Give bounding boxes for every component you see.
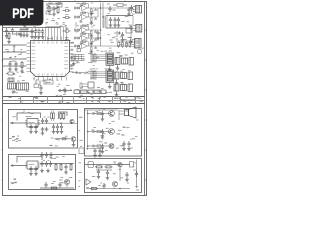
transistor Q6 <box>64 179 69 187</box>
wire top rail <box>84 109 118 111</box>
output caps <box>122 141 131 151</box>
trimmer RV3 <box>63 28 71 32</box>
bus drop wires <box>104 16 107 29</box>
wire harness into U1 top <box>46 27 67 41</box>
extra texture <box>12 21 126 82</box>
dip switch SW2 <box>17 83 29 90</box>
capacitor C4 <box>5 28 9 38</box>
driver stage Q5 <box>88 142 114 154</box>
inter-row wires <box>75 22 77 28</box>
labels bottom-left box <box>11 157 73 184</box>
psu section box outline <box>9 155 76 190</box>
transistor Q8 <box>112 181 117 186</box>
revision table strip <box>3 97 145 104</box>
resistor R3 <box>113 4 127 7</box>
wire net mid <box>72 71 88 74</box>
IC U1 (main processor) <box>27 37 74 81</box>
op-amp U3 stage <box>74 11 98 25</box>
transformer T1 with connector <box>91 51 114 72</box>
speaker LS1 <box>119 107 136 118</box>
electrolytic C18 <box>53 111 55 122</box>
connector group J8 <box>114 82 133 96</box>
crystal X1 <box>6 72 15 75</box>
ground row bottom box <box>29 166 50 176</box>
wire main rail <box>27 122 77 124</box>
IC side labels <box>7 50 23 58</box>
wires to connectors <box>98 8 133 46</box>
capacitor C13 <box>107 4 112 12</box>
wire speaker feed <box>118 110 120 120</box>
audio section box outline <box>9 110 78 149</box>
connector group J6 <box>115 56 134 71</box>
sheet border frame ticks <box>2 0 147 196</box>
right edge wire <box>133 160 138 189</box>
transformer T2 with connector <box>91 69 114 89</box>
op-amp U2 stage <box>74 2 98 16</box>
driver stage Q4 <box>88 128 115 140</box>
labels cluster A <box>46 3 60 15</box>
coupling caps <box>40 161 52 168</box>
transistor Q1 <box>70 119 74 123</box>
IC U8 <box>25 119 40 128</box>
connector J2 <box>130 5 142 14</box>
decoupling caps row <box>30 29 44 39</box>
wire loop above IC <box>17 113 41 121</box>
connector group J7 <box>114 70 133 85</box>
feedback loop resistors <box>59 112 68 120</box>
labels below switches <box>12 91 29 93</box>
trimmer RV2 <box>63 15 71 19</box>
dip switch SW1 <box>8 83 16 89</box>
RC cluster A <box>46 2 62 16</box>
bottom rail <box>40 182 74 189</box>
mid network <box>96 169 112 180</box>
svg-text:PDF: PDF <box>12 6 34 21</box>
labels right box <box>101 111 139 151</box>
capacitor C1 <box>19 28 23 38</box>
amp section box outline <box>85 109 142 157</box>
cap C19 <box>113 162 134 168</box>
small IC U1 <box>57 2 62 7</box>
capacitor C14 <box>127 7 131 16</box>
resistor gutter R4 <box>79 148 84 154</box>
wire feed vertical <box>87 110 89 150</box>
resistor R6 <box>105 166 113 168</box>
header J1 <box>8 78 14 82</box>
caps above box <box>40 152 52 158</box>
wire IC left harness <box>3 45 27 66</box>
resistor R1 <box>7 32 11 44</box>
label U1 <box>47 38 53 40</box>
component U7 <box>126 29 132 34</box>
labels mid-right <box>108 10 132 44</box>
capacitor C10 <box>117 17 121 27</box>
rail decoupling <box>52 124 64 134</box>
capacitor C6 <box>8 61 12 71</box>
op-amp U10 <box>86 179 91 185</box>
reset circuit below U1 <box>34 80 53 95</box>
wire IC input <box>10 122 27 124</box>
driver stage Q3 <box>88 110 115 121</box>
resistor R5 <box>95 166 103 168</box>
trimmer RV4 <box>63 38 71 42</box>
op-amp U5 stage <box>74 32 98 46</box>
electrolytic C17 <box>50 111 52 122</box>
labels bottom-right box <box>86 163 139 190</box>
PDF badge <box>0 0 43 26</box>
bottom rail right <box>86 183 130 190</box>
misc labels top section <box>33 18 133 95</box>
crystal Y1 <box>77 46 81 52</box>
base drive wire <box>55 138 71 140</box>
capacitor C7 <box>14 61 18 71</box>
capacitor C11 <box>121 32 125 42</box>
signal bus verticals <box>98 3 106 47</box>
transistor Q7 <box>118 163 122 181</box>
capacitor C16 <box>45 117 50 131</box>
divider chain <box>40 163 74 174</box>
connector J3 <box>129 25 142 33</box>
gutter labels <box>78 117 83 186</box>
wire power bus <box>3 28 60 32</box>
capacitor C15 <box>41 117 46 131</box>
ground row <box>29 124 44 135</box>
harness to T1 <box>71 55 85 66</box>
jack J5 <box>138 47 145 54</box>
op-amp U6 stage <box>74 40 98 54</box>
diode D2 <box>114 32 121 35</box>
op-amp U4 stage <box>74 25 98 38</box>
loop wires <box>17 156 42 162</box>
wire left <box>11 165 28 167</box>
resistor row mid-right <box>116 41 133 48</box>
input filter <box>84 162 130 168</box>
resistor R2 <box>20 61 24 73</box>
labels top-left <box>6 26 45 38</box>
IC U9 <box>25 161 40 169</box>
connector J4 <box>129 39 141 49</box>
capacitor C2 <box>22 28 26 38</box>
capacitor C8 <box>109 17 113 27</box>
regulator box outline <box>85 159 142 193</box>
diode D1 <box>13 33 22 36</box>
trimmer RV1 <box>63 8 71 12</box>
wire horizontal buses <box>106 16 133 29</box>
net flag below U1 <box>58 88 72 94</box>
capacitor C3 <box>25 28 29 38</box>
capacitor C5 <box>11 28 14 36</box>
labels left box <box>9 111 68 146</box>
transistor Q2 <box>71 137 76 147</box>
labels IC left <box>5 46 26 61</box>
capacitor C20 <box>125 172 129 182</box>
capacitor C9 <box>113 17 117 27</box>
option label row <box>74 88 112 96</box>
capacitor C12 <box>96 30 100 40</box>
lower components right box <box>86 148 104 157</box>
relay K1 <box>80 82 94 88</box>
